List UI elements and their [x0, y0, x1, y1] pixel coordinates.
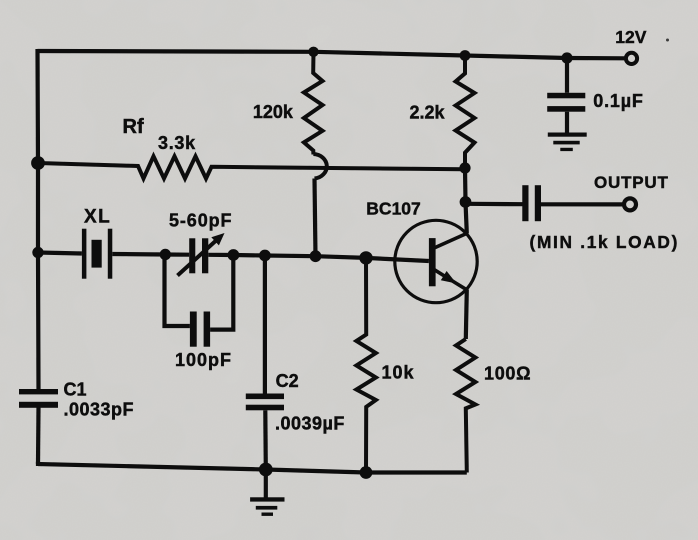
node at top of 2.2k: [460, 50, 471, 61]
svg-text:(MIN .1k LOAD): (MIN .1k LOAD): [530, 232, 680, 252]
capacitor output coupling: [466, 185, 623, 221]
capacitor C1 .0033pF: [19, 389, 58, 408]
terminal 12V: [626, 53, 637, 64]
resistor Rf 3.3k: [38, 156, 465, 178]
ground symbol below C2: [250, 470, 284, 516]
node C2 top: [259, 250, 271, 262]
ground symbol below 0.1uF: [548, 133, 587, 152]
node 120k bottom: [310, 250, 322, 262]
node 10k bottom: [360, 466, 373, 479]
wire base lead: [366, 258, 429, 261]
svg-text:12V: 12V: [615, 27, 646, 47]
svg-text:.0039µF: .0039µF: [275, 414, 345, 434]
svg-text:100pF: 100pF: [175, 350, 232, 370]
capacitor C2 .0039uF: [246, 256, 284, 470]
svg-text:10k: 10k: [382, 362, 415, 382]
value 0.1uF: [593, 91, 643, 111]
value .0033pF: [64, 399, 135, 419]
crystal XL: [38, 229, 165, 279]
wire 120k to base node: [315, 179, 316, 257]
svg-text:5-60pF: 5-60pF: [169, 211, 232, 231]
label C2: [276, 371, 299, 391]
value 5-60pF: [169, 211, 232, 231]
node left rail / crystal line: [32, 247, 43, 258]
label 12V: [615, 27, 646, 47]
svg-text:Rf: Rf: [123, 116, 144, 138]
terminal OUTPUT: [624, 198, 636, 210]
label C1: [64, 380, 87, 400]
svg-text:OUTPUT: OUTPUT: [594, 173, 669, 192]
value .0039uF: [275, 414, 345, 434]
wire collector node to transistor: [466, 202, 467, 233]
node 2.2k bottom / Rf junction: [459, 162, 470, 173]
svg-text:120k: 120k: [253, 102, 294, 122]
resistor 10k: [356, 258, 376, 473]
wire left rail: [38, 49, 39, 389]
label XL: [84, 206, 111, 227]
value 2.2k: [410, 102, 446, 122]
svg-text:100Ω: 100Ω: [484, 364, 531, 384]
value 3.3k: [158, 133, 196, 153]
svg-text:C1: C1: [64, 380, 87, 400]
svg-text:XL: XL: [84, 206, 111, 227]
wire emitter lead: [466, 290, 467, 340]
wire base line segment C2 to 120k node: [265, 253, 316, 258]
wire top supply rail: [38, 51, 626, 58]
resistor 100 ohm: [456, 339, 475, 473]
node collector / output: [460, 196, 472, 208]
wire base line segment to C2 node: [233, 253, 265, 258]
node trimmer right: [228, 249, 240, 261]
svg-text:3.3k: 3.3k: [158, 133, 196, 153]
capacitor 100pF with parallel loop: [165, 255, 234, 347]
label MIN .1k LOAD: [530, 232, 680, 252]
wire 2.2k junction down to collector node: [463, 168, 468, 202]
svg-text:.0033pF: .0033pF: [64, 399, 135, 419]
speck: [666, 39, 669, 42]
value 120k: [253, 102, 294, 122]
value 10k: [382, 362, 415, 382]
label OUTPUT: [594, 173, 669, 192]
node crystal / trimmer / 100pF: [160, 249, 171, 260]
wire left rail below C1: [36, 408, 41, 465]
label Rf: [123, 116, 144, 138]
svg-text:C2: C2: [276, 371, 299, 391]
trimmer capacitor 5-60pF: [165, 233, 233, 276]
svg-text:2.2k: 2.2k: [410, 102, 446, 122]
label BC107: [366, 199, 420, 219]
node left rail / Rf: [31, 156, 45, 170]
capacitor 0.1uF: [547, 58, 585, 133]
svg-text:0.1µF: 0.1µF: [593, 91, 643, 111]
resistor 120k: [304, 52, 323, 155]
node 10k top / base: [359, 251, 372, 264]
resistor 2.2k: [456, 56, 475, 169]
node at top of 120k: [308, 47, 318, 57]
value 100pF: [175, 350, 232, 370]
wire bottom ground rail: [38, 464, 467, 473]
value 100 ohm: [484, 364, 531, 384]
wire base line segment 120k node to 10k node: [316, 256, 367, 258]
node C2 bottom / ground: [259, 463, 273, 477]
svg-text:BC107: BC107: [366, 199, 420, 219]
node at top of 0.1uF: [561, 52, 572, 63]
transistor Q1 BC107: [395, 220, 477, 302]
wire hop crossover of 120k lead over Rf line: [313, 154, 326, 179]
